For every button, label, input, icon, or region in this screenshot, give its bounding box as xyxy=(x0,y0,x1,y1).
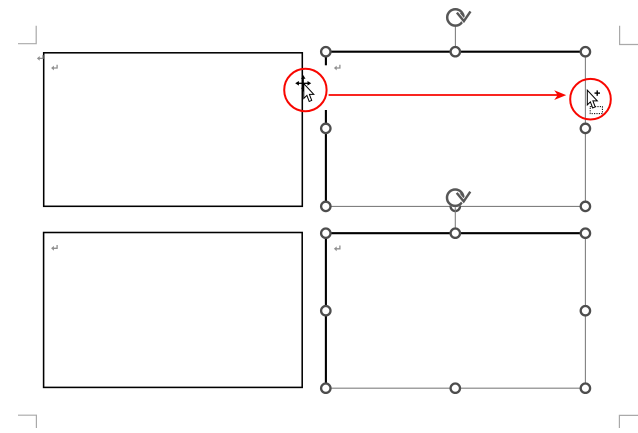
selection handle box4 bottom-left xyxy=(321,384,330,393)
margin crop mark top-left xyxy=(18,26,36,44)
text box 2 : black top edge xyxy=(325,51,587,53)
mouse pointer (move cursor) xyxy=(304,84,314,102)
selection handle box4 top-left xyxy=(321,229,330,238)
selection handle box2 bottom-left xyxy=(321,202,330,211)
move cursor 4-headed arrow xyxy=(295,75,311,92)
pilcrow return mark inside box1 xyxy=(51,65,57,71)
text box 4 : black left edge xyxy=(325,232,327,389)
red annotation arrow shaft xyxy=(329,94,558,96)
selection handle box4 top-mid xyxy=(451,229,460,238)
copy cursor dotted box xyxy=(590,107,602,114)
red annotation circle left xyxy=(284,69,326,111)
selection handle box4 mid-right xyxy=(581,306,590,315)
copy cursor plus sign xyxy=(595,90,601,95)
rotate icon box2 xyxy=(447,9,470,25)
text box 4 : black top edge xyxy=(325,232,587,234)
selection handle box4 bottom-right xyxy=(581,384,590,393)
selection handle box2 mid-right xyxy=(581,124,590,133)
text box 2 : black left edge lower segment xyxy=(325,110,327,207)
pilcrow return mark inside box3 xyxy=(51,245,57,251)
rotate handle connector line box4 xyxy=(454,207,456,230)
selection handle box4 mid-left xyxy=(321,306,330,315)
pilcrow return mark outside box1 xyxy=(37,55,43,61)
rotate handle connector line box2 xyxy=(454,27,456,48)
selection handle box2 mid-left xyxy=(321,124,330,133)
mouse pointer (copy cursor) xyxy=(587,90,597,108)
red annotation circle right xyxy=(570,79,611,120)
text box 2 : gray bottom edge xyxy=(326,205,586,207)
margin crop mark bottom-right xyxy=(619,415,638,428)
text box 4 (bottom-right, selected) : gray right edge xyxy=(584,233,586,388)
margin crop mark bottom-left xyxy=(18,415,36,428)
selection handle box2 top-mid xyxy=(451,47,460,56)
red annotation arrow head xyxy=(554,90,566,100)
selection handle box2 top-left xyxy=(321,47,330,56)
margin crop mark top-right xyxy=(620,26,638,45)
text box 2 : black left edge upper stub xyxy=(325,51,327,65)
text box 1 (top-left, plain black border) xyxy=(44,53,303,207)
text box 2 (top-right, selected) : gray right edge xyxy=(584,52,586,207)
selection handle box4 top-right xyxy=(581,229,590,238)
selection handle box2 top-right xyxy=(581,47,590,56)
text box 3 (bottom-left, plain black border) xyxy=(44,233,303,388)
rotate icon box4 xyxy=(446,188,471,207)
selection handle box2 bottom-right xyxy=(581,202,590,211)
pilcrow return mark inside box2 xyxy=(334,65,340,71)
text box 4 : gray bottom edge xyxy=(326,387,586,389)
pilcrow return mark inside box4 xyxy=(334,246,340,252)
selection handle box4 bottom-mid xyxy=(451,384,460,393)
selection handle box2 bottom-mid xyxy=(451,202,460,211)
